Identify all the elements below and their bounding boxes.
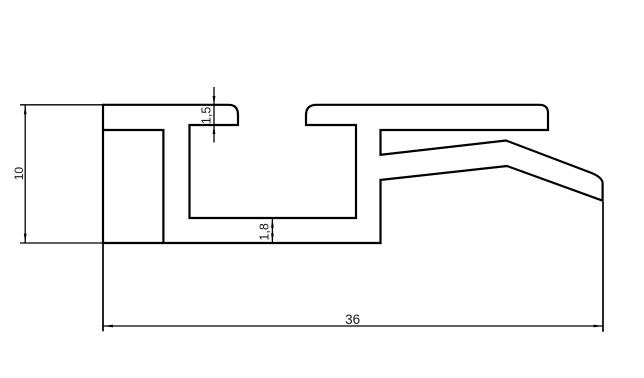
extension line bottom-left vertical for dim 36 [102, 243, 104, 331]
arrow down of dim 10 [24, 234, 27, 243]
arrow down of dim 1,8 [271, 233, 274, 242]
arrow right of dim 36 [594, 325, 603, 328]
dimension line 10 [24, 105, 26, 243]
dimension line 1,8 [271, 218, 273, 243]
extension line top-left [20, 104, 103, 106]
dimension line 1,5 lower tail [213, 126, 215, 143]
extension line bottom-right vertical for dim 36 [602, 202, 604, 332]
arrow up of dim 1,8 [271, 219, 274, 228]
svg-text:36: 36 [345, 312, 360, 327]
svg-text:1,5: 1,5 [200, 107, 214, 124]
dimension line 1,5 upper tail [213, 87, 215, 104]
profile outline (extrusion cross-section) [103, 105, 603, 243]
arrow left of dim 36 [104, 325, 113, 328]
arrow down tip of dim 1,5 [213, 96, 216, 105]
dimension line 36 [104, 325, 604, 327]
extension line bottom-left [20, 242, 103, 244]
dim 1,5 crossing segment [213, 105, 215, 125]
arrow up of dim 10 [24, 105, 27, 114]
svg-text:10: 10 [12, 167, 26, 181]
svg-text:1,8: 1,8 [258, 223, 272, 240]
arrow up tip of dim 1,5 [213, 125, 216, 134]
internal cavity wall (hollow chamber) [103, 130, 163, 243]
